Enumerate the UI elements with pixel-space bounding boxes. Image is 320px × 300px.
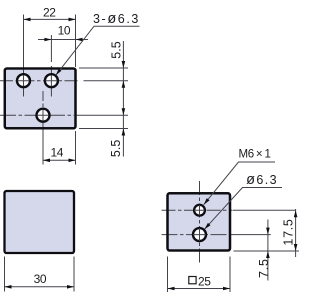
svg-text:25: 25: [198, 275, 211, 289]
svg-text:22: 22: [43, 6, 56, 20]
svg-text:3-ø6.3: 3-ø6.3: [93, 11, 140, 27]
svg-text:M6×1: M6×1: [239, 149, 271, 161]
label sq25 square symbol: [189, 277, 196, 284]
dim 14 line: [43, 159, 76, 161]
hole D crosshair: [194, 205, 205, 215]
svg-text:ø6.3: ø6.3: [246, 172, 278, 188]
hole C crosshair: [37, 110, 49, 121]
hole D (M6 tapped): [194, 205, 205, 216]
centerline V3 vertical: [199, 181, 201, 263]
hole A crosshair: [18, 75, 30, 86]
centerline V-B hole B: [50, 35, 52, 97]
block V3 border redraw: [168, 193, 231, 250]
plate V1 body: [5, 69, 76, 129]
centerline H2 bottom hole row: [0, 114, 74, 116]
leader M6x1: [204, 162, 275, 205]
hole A: [17, 74, 30, 87]
dim 5.5 vertical line: [122, 41, 124, 157]
block V2 body: [5, 191, 75, 253]
leader phi6.3: [205, 188, 283, 230]
dim 7.5 vertical line: [267, 220, 269, 281]
ext line left below: [167, 257, 169, 293]
svg-text:5.5: 5.5: [109, 140, 123, 157]
svg-text:30: 30: [34, 272, 47, 286]
hole C: [37, 109, 50, 122]
dim 30 line: [5, 286, 75, 288]
hole E crosshair: [193, 228, 206, 241]
dim 22 line: [24, 18, 76, 20]
dim sq25 line: [168, 288, 231, 290]
ext line bottom edge right: [234, 250, 300, 252]
ext line left: [4, 257, 6, 292]
hole B: [45, 74, 58, 87]
centerline H-D top hole row: [162, 209, 233, 211]
hole E (6.3 drilled): [193, 228, 206, 241]
svg-text:5.5: 5.5: [109, 41, 123, 58]
centerline V-C hole C: [42, 91, 44, 165]
ext line right: [73, 257, 75, 292]
hole B crosshair: [46, 75, 58, 86]
svg-text:14: 14: [51, 146, 64, 160]
leader 3-phi6.3: [56, 26, 140, 75]
ext line right edge for dims 22/10: [75, 15, 77, 68]
ext line bottom edge right: [79, 128, 128, 130]
svg-text:10: 10: [58, 23, 71, 37]
dim 10 line: [38, 39, 88, 41]
ext line right below: [229, 257, 231, 293]
plate V1 border redraw: [5, 69, 76, 129]
ext line top edge right: [79, 67, 128, 69]
dim 17.5 vertical line: [295, 209, 297, 257]
svg-text:7.5: 7.5: [257, 258, 271, 278]
block V3 body: [168, 193, 231, 250]
centerline V-A hole A: [23, 15, 25, 97]
ext line for dim 14 right: [75, 131, 77, 165]
centerline H-E bottom hole row: [162, 234, 231, 236]
centerline H1 top hole row: [0, 80, 80, 82]
svg-text:17.5: 17.5: [281, 218, 295, 245]
